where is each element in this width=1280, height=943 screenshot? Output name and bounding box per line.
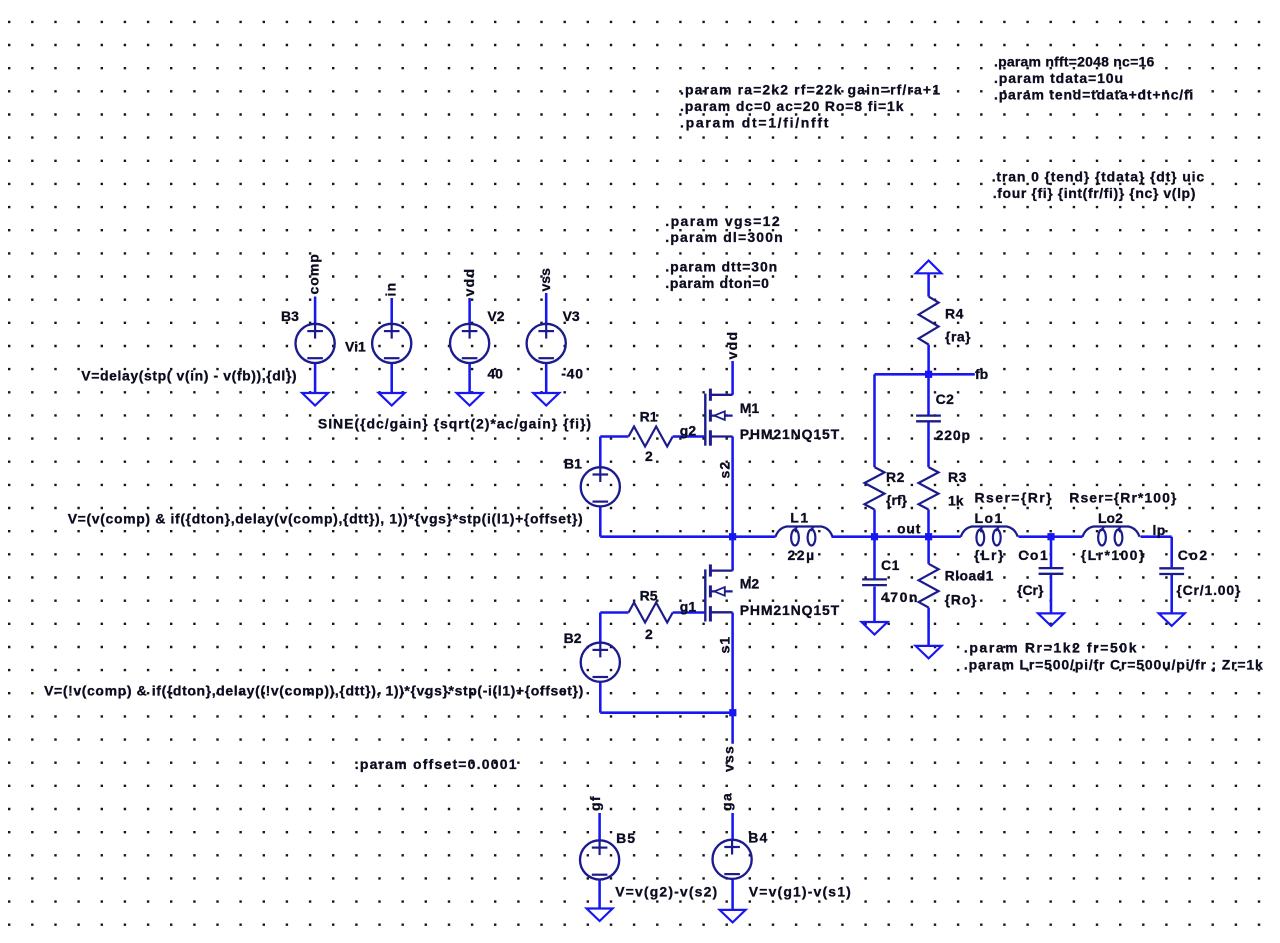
svg-text:fb: fb <box>975 366 988 382</box>
svg-text:s2: s2 <box>717 461 733 479</box>
svg-text:{rf}: {rf} <box>886 492 908 508</box>
svg-text:R4: R4 <box>945 306 964 322</box>
svg-text:1k: 1k <box>948 492 964 508</box>
svg-text:out: out <box>897 520 921 536</box>
svg-text:ga: ga <box>719 792 735 811</box>
svg-text:{Ro}: {Ro} <box>945 592 978 608</box>
svg-text:Co2: Co2 <box>1178 547 1209 563</box>
svg-text:Rser={Rr}: Rser={Rr} <box>975 490 1054 506</box>
svg-text:.param dc=0 ac=20 Ro=8 fi=1k: .param dc=0 ac=20 Ro=8 fi=1k <box>680 98 904 114</box>
svg-text:vdd: vdd <box>461 268 477 297</box>
svg-text:L1: L1 <box>790 509 809 525</box>
svg-text:.param dton=0: .param dton=0 <box>665 275 769 291</box>
svg-text:22µ: 22µ <box>788 547 816 563</box>
svg-text:V3: V3 <box>563 308 580 324</box>
svg-text:M2: M2 <box>740 576 760 592</box>
svg-text:B4: B4 <box>748 829 768 845</box>
svg-text:PHM21NQ15T: PHM21NQ15T <box>740 426 840 442</box>
svg-text:R2: R2 <box>886 469 905 485</box>
svg-text:V=delay(stp( v(in) - v(fb)),{d: V=delay(stp( v(in) - v(fb)),{dl}) <box>81 367 297 383</box>
svg-text:.param tdata=10u: .param tdata=10u <box>994 70 1124 86</box>
svg-text:gf: gf <box>587 795 603 811</box>
svg-text:R5: R5 <box>640 588 658 604</box>
svg-text:2: 2 <box>645 626 653 642</box>
svg-text:B2: B2 <box>564 630 582 646</box>
svg-text:R3: R3 <box>948 469 967 485</box>
svg-text:Co1: Co1 <box>1018 547 1049 563</box>
svg-text:Rload1: Rload1 <box>945 568 994 584</box>
svg-text:{Lr*100}: {Lr*100} <box>1081 547 1146 563</box>
svg-text:C1: C1 <box>881 557 900 573</box>
svg-text:g1: g1 <box>680 599 697 615</box>
svg-text:s1: s1 <box>717 636 733 654</box>
svg-text:{Cr/1.00}: {Cr/1.00} <box>1176 582 1241 598</box>
svg-text:.param dl=300n: .param dl=300n <box>665 229 784 245</box>
svg-text:.param dt=1/fi/nfft: .param dt=1/fi/nfft <box>680 115 830 131</box>
svg-text:M1: M1 <box>740 400 760 416</box>
svg-text:B3: B3 <box>281 308 299 324</box>
svg-text:470n: 470n <box>881 589 919 605</box>
svg-text:PHM21NQ15T: PHM21NQ15T <box>740 602 840 618</box>
svg-text:V=(v(comp) & if({dton},delay(v: V=(v(comp) & if({dton},delay(v(comp),{dt… <box>68 510 584 526</box>
svg-text:.param nfft=2048 nc=16: .param nfft=2048 nc=16 <box>994 54 1154 70</box>
svg-text:B1: B1 <box>564 455 582 471</box>
svg-text:Lo1: Lo1 <box>975 510 1004 526</box>
svg-text:V2: V2 <box>487 308 504 324</box>
svg-text:.four {fi} {int(fr/fi)} {nc} v: .four {fi} {int(fr/fi)} {nc} v(lp) <box>993 185 1196 201</box>
svg-text:V=v(g1)-v(s1): V=v(g1)-v(s1) <box>749 883 852 899</box>
svg-text:Rser={Rr*100}: Rser={Rr*100} <box>1069 490 1177 506</box>
svg-text:vss: vss <box>721 745 737 772</box>
svg-text:R1: R1 <box>640 409 658 425</box>
svg-text:V=v(g2)-v(s2): V=v(g2)-v(s2) <box>615 883 718 899</box>
svg-text:{Lr}: {Lr} <box>974 547 1005 563</box>
svg-text:vss: vss <box>537 268 553 292</box>
svg-text:220p: 220p <box>936 427 971 443</box>
svg-text:-40: -40 <box>561 365 584 381</box>
svg-text:g2: g2 <box>680 423 697 439</box>
svg-text:.tran 0 {tend} {tdata} {dt} ui: .tran 0 {tend} {tdata} {dt} uic <box>992 169 1205 185</box>
svg-text:in: in <box>383 282 399 297</box>
svg-text:.param tend=tdata+dt+nc/fi: .param tend=tdata+dt+nc/fi <box>994 87 1194 103</box>
svg-text:.param ra=2k2 rf=22k gain=rf/r: .param ra=2k2 rf=22k gain=rf/ra+1 <box>680 82 941 98</box>
svg-text:SINE({dc/gain} {sqrt(2)*ac/gai: SINE({dc/gain} {sqrt(2)*ac/gain} {fi}) <box>318 416 592 432</box>
svg-text:.param vgs=12: .param vgs=12 <box>665 213 781 229</box>
svg-text:B5: B5 <box>616 830 636 846</box>
svg-text:vdd: vdd <box>724 331 740 360</box>
svg-text:V=(!v(comp) & if({dton},delay(: V=(!v(comp) & if({dton},delay((!v(comp))… <box>44 682 584 698</box>
svg-text:2: 2 <box>645 448 653 464</box>
svg-text:Lo2: Lo2 <box>1098 510 1123 526</box>
svg-text:comp: comp <box>306 253 322 294</box>
svg-text:40: 40 <box>487 365 503 381</box>
svg-text:.param dtt=30n: .param dtt=30n <box>665 259 778 275</box>
svg-text:lp: lp <box>1153 522 1166 538</box>
svg-text:C2: C2 <box>936 391 955 407</box>
svg-text:Vi1: Vi1 <box>345 339 366 355</box>
svg-text:.param Rr=1k2 fr=50k: .param Rr=1k2 fr=50k <box>964 640 1138 656</box>
svg-text:{ra}: {ra} <box>945 329 971 345</box>
svg-text:.param Lr=500/pi/fr Cr=500u/pi: .param Lr=500/pi/fr Cr=500u/pi/fr ; Zr=1… <box>964 656 1264 672</box>
svg-text:{Cr}: {Cr} <box>1017 582 1044 598</box>
svg-text:.param offset=0.0001: .param offset=0.0001 <box>355 756 518 772</box>
